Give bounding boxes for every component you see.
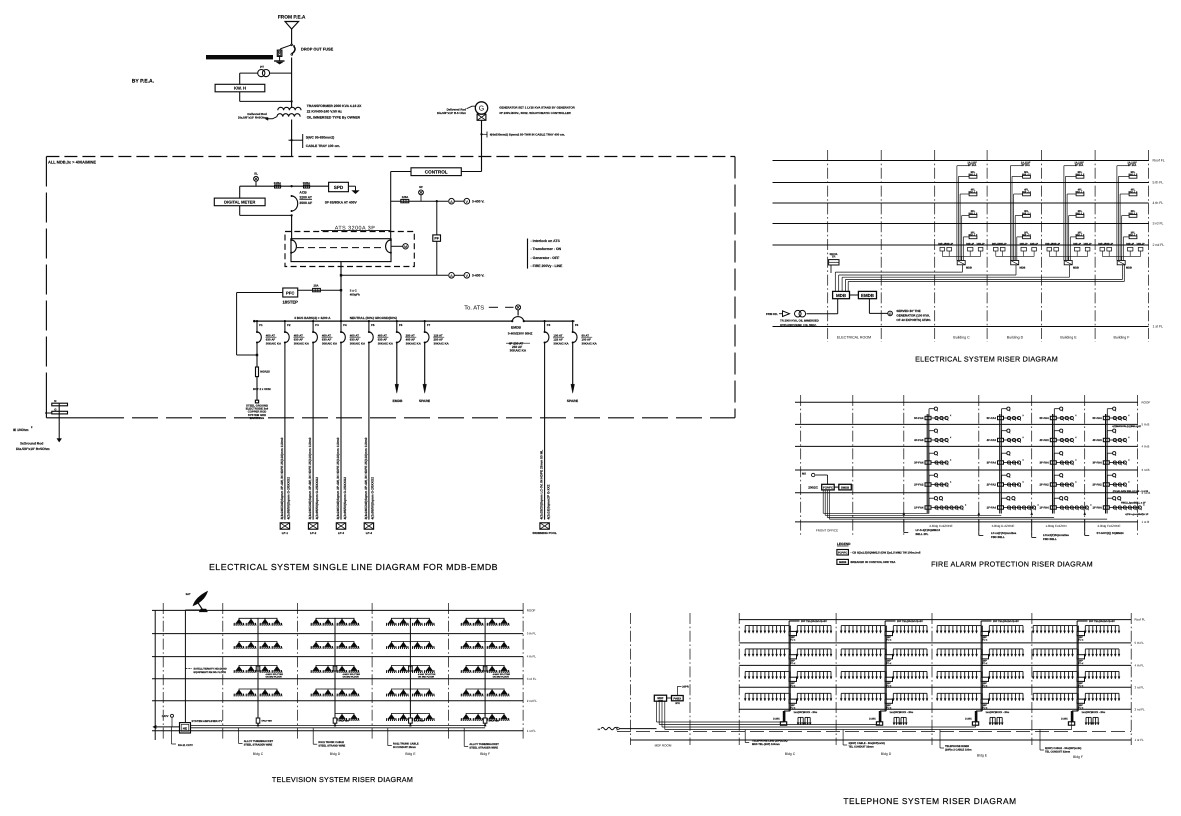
column grid dashed lines fire alarm riser xyxy=(800,395,802,536)
TV outlet pair bay 3 row 5 left xyxy=(386,718,397,720)
svg-text:TC-x: TC-x xyxy=(790,662,796,665)
svg-text:M: M xyxy=(404,245,407,249)
svg-text:FBELL/gxxBELL x 1F: FBELL/gxxBELL x 1F xyxy=(1121,502,1146,505)
terminal cabinet row 2 building 4 xyxy=(1077,655,1085,659)
svg-text:MDB: MDB xyxy=(1126,267,1132,270)
telephone outlets row 3 right building 2 xyxy=(893,670,927,672)
terminal cabinet row 3 building 3 xyxy=(981,677,989,681)
svg-text:3P 20A: 3P 20A xyxy=(1128,164,1137,167)
svg-text:Building C: Building C xyxy=(953,336,970,340)
smoke detector hook row 1 building 2 xyxy=(1001,409,1003,417)
svg-text:FCP/FC: FCP/FC xyxy=(823,486,833,490)
svg-text:(20P)x 2 CABLE 100m: (20P)x 2 CABLE 100m xyxy=(945,749,972,752)
fire alarm floor module 2F-FA2 building 3 xyxy=(1050,483,1056,486)
svg-text:1 st B: 1 st B xyxy=(1142,520,1150,524)
fire alarm floor module 3F-FA4 building 4 xyxy=(1103,461,1109,464)
alarm bells row 4 building 3 xyxy=(1056,484,1072,486)
svg-text:QVFL/22KV/24W, +OL 50HZ.: QVFL/22KV/24W, +OL 50HZ. xyxy=(780,323,817,327)
svg-text:Roof FL: Roof FL xyxy=(1135,618,1146,622)
TV outlet pair bay 4 row 5 right xyxy=(487,718,498,720)
svg-text:F8: F8 xyxy=(547,323,551,327)
svg-text:5F-FA4: 5F-FA4 xyxy=(987,416,997,420)
svg-text:Dia.5/8"x10' R=5Ohm: Dia.5/8"x10' R=5Ohm xyxy=(238,115,267,119)
legend SMDB box xyxy=(837,559,849,564)
svg-text:ALL MDB,3c > 400A/MINE: ALL MDB,3c > 400A/MINE xyxy=(48,160,96,165)
svg-text:3-400/230V 50HZ: 3-400/230V 50HZ xyxy=(508,332,533,336)
svg-text:4(2x95/50)Sqmm G-2/0XXG2: 4(2x95/50)Sqmm G-2/0XXG2 xyxy=(315,477,319,520)
telephone riser building 3 xyxy=(980,623,982,712)
svg-text:TC-x: TC-x xyxy=(886,684,892,687)
legend interlock notes xyxy=(527,239,529,269)
power factor meter PF box xyxy=(433,235,441,241)
telephone riser bottom heavy section building 4 xyxy=(1071,711,1074,722)
fire alarm floor module 2F-FA2 building 2 xyxy=(998,483,1004,486)
telephone conduit dashed line xyxy=(617,731,1131,733)
svg-text:3P 63/80KA AT 400V: 3P 63/80KA AT 400V xyxy=(325,201,358,205)
svg-text:2-20C: 2-20C xyxy=(965,718,972,721)
svg-text:FRM KK.: FRM KK. xyxy=(766,312,778,316)
svg-text:kWh,1P: kWh,1P xyxy=(1020,242,1028,245)
PABX box xyxy=(672,696,684,701)
EMDB incoming tie breaker arc on bus xyxy=(512,317,524,322)
wire MDB to EMDB tie xyxy=(850,294,859,296)
telephone outlets row 4 left building 1 xyxy=(745,692,784,694)
svg-text:1F-FA4: 1F-FA4 xyxy=(1092,506,1102,510)
svg-text:kWh,1P: kWh,1P xyxy=(1137,242,1145,245)
svg-text:BREAKER 30 CONTROL 60W TBA: BREAKER 30 CONTROL 60W TBA xyxy=(851,560,896,564)
svg-text:LEGEND: LEGEND xyxy=(837,542,851,546)
svg-text:Building E: Building E xyxy=(1060,336,1077,340)
svg-text:4F-FA3: 4F-FA3 xyxy=(987,438,997,442)
svg-text:3F-FA4: 3F-FA4 xyxy=(987,461,997,465)
svg-text:ELECTRICAL ROOM: ELECTRICAL ROOM xyxy=(837,336,871,340)
smoke detector hook row 5 building 4 xyxy=(1106,498,1108,506)
svg-text:4-WAY SPLITTER: 4-WAY SPLITTER xyxy=(266,673,284,676)
terminal cabinet row 1 building 1 xyxy=(789,631,797,635)
fire alarm riser pair building 4 xyxy=(1105,414,1107,514)
alarm bells row 4 building 2 xyxy=(1004,484,1020,486)
svg-text:OF 4# EXPORTS) ATMO.: OF 4# EXPORTS) ATMO. xyxy=(896,318,931,322)
TV outlet pair bay 4 row 4 right xyxy=(487,694,498,696)
wire earth bar drop xyxy=(58,403,60,438)
svg-text:2 nd FL: 2 nd FL xyxy=(1153,243,1165,247)
wire PT metering loop bottom xyxy=(239,92,241,102)
svg-text:30KAIC KA: 30KAIC KA xyxy=(582,342,598,346)
telephone outlets row 2 right building 2 xyxy=(893,648,927,650)
svg-text:2-20C: 2-20C xyxy=(1061,718,1068,721)
manual station hook at FCP xyxy=(827,475,829,484)
TV outlet pair bay 1 row 2 right xyxy=(260,646,271,648)
feeder breaker F8 xyxy=(544,321,546,332)
floor lines television riser xyxy=(152,609,523,611)
svg-text:3(4x240/240)Sqmm 3P-4W, IN HDP: 3(4x240/240)Sqmm 3P-4W, IN HDPE 25(110)m… xyxy=(364,437,368,519)
fire alarm floor module 3F-FA4 building 1 xyxy=(925,461,931,464)
svg-text:TEL CONDUIT 32mm: TEL CONDUIT 32mm xyxy=(1045,751,1071,754)
svg-text:BY P.E.A.: BY P.E.A. xyxy=(132,79,155,85)
riser bottom junction box building 2 xyxy=(876,722,882,725)
panel board LP-3 (box with X) xyxy=(336,523,345,529)
telephone outlets row 4 right building 3 xyxy=(989,692,1023,694)
ATS motor operator circle xyxy=(391,245,403,247)
TV outlet pair bay 3 row 1 right xyxy=(412,623,423,625)
column grid dashed lines electrical riser xyxy=(827,150,829,342)
fire alarm floor module 4F-FA3 building 3 xyxy=(1050,438,1056,441)
svg-text:3500 AF: 3500 AF xyxy=(299,201,312,205)
svg-text:A: A xyxy=(450,274,453,278)
main distribution frame MDF box xyxy=(654,695,666,701)
telephone outlets row 4 left building 3 xyxy=(937,692,976,694)
annotation leaders below telephone trunk xyxy=(744,730,746,743)
potential transformer PT (double circle) xyxy=(258,70,265,77)
svg-text:4(2x16)Sqmm2P G-XX2: 4(2x16)Sqmm2P G-XX2 xyxy=(546,484,550,519)
fire alarm floor module 4F-FA3 building 2 xyxy=(998,438,1004,441)
TV outlet pair bay 1 row 1 right xyxy=(260,623,271,625)
TV outlet pair bay 2 row 2 left xyxy=(311,646,322,648)
fire alarm floor module 1F-FA4 building 2 xyxy=(998,506,1004,509)
telephone riser bottom heavy section building 2 xyxy=(879,711,882,722)
unit meter row Building F xyxy=(1100,247,1105,251)
svg-text:30KAIC KA: 30KAIC KA xyxy=(266,342,282,346)
TV outlet pair bay 2 row 4 right xyxy=(337,694,348,696)
fire alarm floor module 1F-FA4 building 4 xyxy=(1103,506,1109,509)
svg-text:PF: PF xyxy=(434,237,438,241)
svg-text:4-WAY SPLITTER: 4-WAY SPLITTER xyxy=(418,673,436,676)
svg-text:GENERATOR SET 1 LY25 KVA STAND: GENERATOR SET 1 LY25 KVA STAND BY GENERA… xyxy=(499,105,575,109)
svg-text:FCP/FC: FCP/FC xyxy=(838,552,847,555)
CATV tap symbol xyxy=(171,714,174,717)
wire feeder drop to panel LP-1 xyxy=(284,343,286,520)
generator cable callout xyxy=(486,132,488,138)
telephone riser building 2 xyxy=(884,623,886,712)
panel board SWIMMING POOL xyxy=(540,523,549,529)
svg-text:KW. H: KW. H xyxy=(234,86,246,91)
wire incoming line from triangle to drop-out fuse xyxy=(291,29,293,44)
incoming supply triangle symbol xyxy=(285,22,299,30)
fire alarm floor module 3F-FA4 building 3 xyxy=(1050,461,1056,464)
TV outlet pair bay 3 row 2 left xyxy=(386,646,397,648)
svg-text:G: G xyxy=(889,312,892,316)
svg-text:PT: PT xyxy=(260,65,264,69)
svg-text:2-20C: 2-20C xyxy=(869,718,876,721)
neutral ground resistor NGR xyxy=(256,367,259,377)
svg-text:ACB: ACB xyxy=(299,190,307,194)
fire alarm floor module 2F-FA2 building 1 xyxy=(925,483,931,486)
fire alarm floor module 2F-FA2 building 4 xyxy=(1103,483,1109,486)
fire alarm floor module 4F-FA3 building 4 xyxy=(1103,438,1109,441)
svg-text:F1: F1 xyxy=(259,323,263,327)
svg-text:F3: F3 xyxy=(315,323,319,327)
telephone riser bottom heavy section building 3 xyxy=(975,711,978,722)
TV outlet pair bay 4 row 2 right xyxy=(487,646,498,648)
svg-text:FIRE ALARM PROTECTION RISER DI: FIRE ALARM PROTECTION RISER DIAGRAM xyxy=(931,560,1093,569)
wire resistor to earth electrode xyxy=(256,377,258,401)
CONTROL box xyxy=(411,168,461,176)
terminal cabinet row 1 building 2 xyxy=(885,631,893,635)
svg-text:SPARE: SPARE xyxy=(419,399,431,403)
TV outlet pair bay 4 row 3 right xyxy=(487,670,498,672)
drop-out fuse blade xyxy=(292,45,295,53)
generator G circle xyxy=(475,102,487,114)
air circuit breaker ACB 3200AT xyxy=(292,196,298,211)
svg-text:IE 10Ohm: IE 10Ohm xyxy=(13,428,29,432)
svg-text:ON 3RD FLOOR: ON 3RD FLOOR xyxy=(266,676,283,679)
TV outlet pair bay 3 row 3 left xyxy=(386,670,397,672)
svg-text:2(20P) CABLE - 50x(20P)xxSQ: 2(20P) CABLE - 50x(20P)xxSQ xyxy=(849,742,885,745)
svg-text:3200 AT: 3200 AT xyxy=(299,195,312,199)
telephone outlets row 1 left building 1 xyxy=(745,625,784,627)
telephone top feeder hook building 4 xyxy=(1076,621,1078,623)
terminal cabinet row 1 building 4 xyxy=(1077,631,1085,635)
svg-text:- Interlock on ATS: - Interlock on ATS xyxy=(531,239,561,243)
svg-text:kWh,1P: kWh,1P xyxy=(1105,242,1113,245)
svg-text:MDF: MDF xyxy=(657,696,663,700)
svg-text:TELEPHONE LINE (20P)xxSQ: TELEPHONE LINE (20P)xxSQ xyxy=(752,740,788,743)
svg-text:TC-x: TC-x xyxy=(1078,662,1084,665)
telephone outlets row 3 right building 3 xyxy=(989,670,1023,672)
fire alarm riser pair building 3 xyxy=(1052,414,1054,514)
svg-text:SPLITTER: SPLITTER xyxy=(414,720,425,723)
svg-text:Roof FL: Roof FL xyxy=(1153,159,1165,163)
meter collection loop Building E xyxy=(1048,251,1050,256)
svg-text:3P 230V./400V., 50HZ. W/AUTOMA: 3P 230V./400V., 50HZ. W/AUTOMATIC CONTRO… xyxy=(499,111,571,115)
svg-text:F6: F6 xyxy=(399,323,403,327)
svg-text:SPD: SPD xyxy=(334,185,344,190)
svg-text:A: A xyxy=(450,200,453,204)
alarm bells row 5 building 4 xyxy=(1109,507,1140,509)
svg-text:3PR: 3PR xyxy=(675,702,680,705)
svg-text:3-400 V.: 3-400 V. xyxy=(472,274,485,278)
svg-text:30KAIC KA: 30KAIC KA xyxy=(510,349,527,353)
svg-text:kWh,1P: kWh,1P xyxy=(945,242,953,245)
svg-text:2F-FA2: 2F-FA2 xyxy=(987,483,997,487)
wire lower metering line xyxy=(341,274,448,276)
svg-text:30KVA: 30KVA xyxy=(829,253,837,256)
svg-text:Bldg D: Bldg D xyxy=(330,752,341,756)
svg-text:3(4x240/240)Sqmm 3P-4W, IN HDP: 3(4x240/240)Sqmm 3P-4W, IN HDPE 25(110)m… xyxy=(308,437,312,519)
svg-text:125A: 125A xyxy=(402,195,409,199)
svg-text:F5: F5 xyxy=(371,323,375,327)
alarm bells row 1 building 4 xyxy=(1109,417,1125,419)
building riser bundle Building D xyxy=(1009,166,1011,261)
svg-text:SERVED BY THE: SERVED BY THE xyxy=(896,309,920,313)
riser collector box Building E xyxy=(1064,261,1072,265)
wire main line from fuse to PT tap xyxy=(291,58,293,102)
feeder F9 arrow SPARE xyxy=(572,343,574,385)
wire MDB main bus 3200A xyxy=(254,320,512,322)
smoke detector hook row 4 building 3 xyxy=(1053,475,1055,483)
svg-text:3F-FA4: 3F-FA4 xyxy=(1039,461,1049,465)
surge protective device SPD box xyxy=(329,182,349,191)
svg-text:Building D: Building D xyxy=(1007,336,1024,340)
smoke detector hook row 2 building 4 xyxy=(1106,431,1108,439)
fire alarm floor module 5F-FA4 building 4 xyxy=(1103,416,1109,419)
ammeter A upper xyxy=(449,198,455,204)
svg-text:FROM P.E.A: FROM P.E.A xyxy=(278,15,306,21)
svg-text:Bldg C: Bldg C xyxy=(253,752,264,756)
terminal cabinet row 4 building 3 xyxy=(981,699,989,703)
svg-text:4 th FL: 4 th FL xyxy=(527,655,537,659)
telephone outlets row 2 left building 3 xyxy=(937,648,976,650)
telephone outlets row 1 right building 3 xyxy=(989,625,1023,627)
wire PT metering loop top xyxy=(240,72,258,74)
svg-text:2 nd FL: 2 nd FL xyxy=(527,699,538,703)
unit meter row Building C xyxy=(940,247,945,251)
TV splitter box bay 2 floor 3 xyxy=(333,666,337,671)
svg-text:BCT 2 x OHM: BCT 2 x OHM xyxy=(253,387,271,391)
leader label below headend xyxy=(171,727,173,744)
wire incoming service to MDB xyxy=(837,299,839,314)
riser bottom junction box building 1 xyxy=(780,722,786,725)
generator source circle EMDB xyxy=(888,311,893,316)
svg-text:20PR: 20PR xyxy=(682,686,689,689)
wire satellite downlead xyxy=(185,609,204,611)
svg-text:4F-FA3: 4F-FA3 xyxy=(914,438,924,442)
svg-text:3P 20A: 3P 20A xyxy=(1021,164,1030,167)
wire MDF to PABX xyxy=(667,697,672,699)
TV outlet pair bay 2 row 1 left xyxy=(311,623,322,625)
wire emergency metering line xyxy=(391,200,448,202)
voltmeter V upper xyxy=(464,198,470,204)
telephone outlets row 1 left building 3 xyxy=(937,625,976,627)
telephone outlets row 1 right building 1 xyxy=(797,625,831,627)
riser collector box Building F xyxy=(1117,261,1125,265)
power factor correction PFC box xyxy=(283,288,298,297)
alarm bells row 1 building 2 xyxy=(1004,417,1020,419)
svg-text:Dia.5/8"x10' R=5Ohm: Dia.5/8"x10' R=5Ohm xyxy=(16,447,50,451)
svg-text:DIGITAL METER: DIGITAL METER xyxy=(224,200,255,205)
PABX 20PR hook xyxy=(676,686,678,695)
svg-text:MS: MS xyxy=(802,472,806,475)
roof transformer symbol on MDB riser xyxy=(830,265,832,273)
svg-text:TC-x: TC-x xyxy=(886,639,892,642)
svg-text:FBD BELL: FBD BELL xyxy=(1043,537,1057,541)
fuse cutout body xyxy=(280,45,291,49)
terminal cabinet row 4 building 1 xyxy=(789,699,797,703)
svg-text:2F-FA2: 2F-FA2 xyxy=(1092,483,1102,487)
svg-text:4 th FL: 4 th FL xyxy=(1135,664,1145,668)
transformer neutral ground lead xyxy=(268,117,277,119)
svg-text:EMDB: EMDB xyxy=(393,399,403,403)
svg-text:2(20P) CABLE - 50x(20P)xxSQ: 2(20P) CABLE - 50x(20P)xxSQ xyxy=(1045,747,1081,750)
smoke detector hook row 5 building 1 xyxy=(928,498,930,506)
svg-text:STEEL STRADER WIRE: STEEL STRADER WIRE xyxy=(469,747,498,750)
fire alarm riser pair building 2 xyxy=(999,414,1001,514)
TV outlet pair bay 3 row 2 right xyxy=(412,646,423,648)
svg-text:kWh,1P: kWh,1P xyxy=(977,242,985,245)
fire control panel FCP/FC box xyxy=(822,484,835,490)
smoke detector hook row 2 building 3 xyxy=(1053,431,1055,439)
fire alarm floor module 5F-FA4 building 2 xyxy=(998,416,1004,419)
telephone top feeder hook building 3 xyxy=(980,621,982,623)
svg-text:TC-x: TC-x xyxy=(982,684,988,687)
feeder breaker F4 xyxy=(340,321,342,332)
TV splitter box bay 4 floor 3 xyxy=(483,666,487,671)
ATS dashed linkage line xyxy=(297,247,385,249)
svg-text:ELECTRICAL SYSTEM RISER DIAGRA: ELECTRICAL SYSTEM RISER DIAGRAM xyxy=(915,355,1058,364)
first floor line electrical riser xyxy=(773,326,1149,328)
svg-text:kWh,1P: kWh,1P xyxy=(1052,242,1060,245)
ground lead below fuse cutout xyxy=(279,56,281,60)
svg-text:OIL IMMERSED TYPE By OWNER: OIL IMMERSED TYPE By OWNER xyxy=(307,116,361,120)
telephone outlets row 2 left building 4 xyxy=(1033,648,1072,650)
wire TV riser to trunk bay 1 xyxy=(257,723,259,725)
kilowatt-hour meter box KW H xyxy=(215,84,265,92)
first floor line television riser xyxy=(152,730,523,732)
svg-text:TC-x: TC-x xyxy=(886,662,892,665)
svg-text:SPLITTER: SPLITTER xyxy=(338,720,349,723)
svg-text:HE: HE xyxy=(183,727,187,731)
svg-text:20P TEL(20x2x0.5)+2C: 20P TEL(20x2x0.5)+2C xyxy=(801,620,827,623)
svg-text:MDF ROOM: MDF ROOM xyxy=(655,743,672,747)
svg-text:DROP OUT FUSE: DROP OUT FUSE xyxy=(301,46,334,51)
first floor line telephone riser xyxy=(631,739,1132,741)
telephone outlets row 2 right building 4 xyxy=(1085,648,1119,650)
alarm bells row 4 building 4 xyxy=(1109,484,1125,486)
svg-text:4(2x95/50)Sqmm G-2/0XXG2: 4(2x95/50)Sqmm G-2/0XXG2 xyxy=(287,477,291,520)
telephone outlets row 1 right building 4 xyxy=(1085,625,1119,627)
TV outlet pair bay 1 row 2 left xyxy=(234,646,245,648)
feeder breaker F3 xyxy=(312,321,314,332)
fire alarm floor module 1F-FA4 building 3 xyxy=(1050,506,1056,509)
telephone outlets row 3 left building 3 xyxy=(937,670,976,672)
svg-text:4(4x630mm2) Spmm2 50-THW IN CA: 4(4x630mm2) Spmm2 50-THW IN CABLE TRAY 4… xyxy=(490,132,566,136)
svg-text:F4: F4 xyxy=(343,323,347,327)
smoke detector hook row 4 building 2 xyxy=(1001,475,1003,483)
svg-text:1 st FL: 1 st FL xyxy=(527,729,537,733)
telephone outlets row 4 left building 2 xyxy=(841,692,880,694)
smoke detector hook row 3 building 1 xyxy=(928,453,930,461)
MDB cubicle dashed enclosure xyxy=(46,156,735,158)
smoke detector hook row 1 building 1 xyxy=(928,409,930,417)
SPD ground lead xyxy=(348,185,355,187)
svg-text:kWh,1P: kWh,1P xyxy=(1073,242,1081,245)
TV outlet pair bay 1 row 1 left xyxy=(234,623,245,625)
wire feeder drop to panel LP-3 xyxy=(340,343,342,520)
feeder breaker F7 xyxy=(424,321,426,332)
feeder F7 arrow SPARE xyxy=(424,343,426,385)
svg-text:F7: F7 xyxy=(427,323,431,327)
svg-text:3 BUS BARS(4) > 3200 A: 3 BUS BARS(4) > 3200 A xyxy=(294,316,331,320)
terminal cabinet row 2 building 2 xyxy=(885,655,893,659)
smoke detector hook row 4 building 1 xyxy=(928,475,930,483)
svg-text:30KAIC KA: 30KAIC KA xyxy=(378,342,394,346)
svg-text:- FIRE 200Vy - LINE: - FIRE 200Vy - LINE xyxy=(531,264,564,268)
svg-text:BELL 2FL: BELL 2FL xyxy=(916,532,929,536)
wire TV riser to trunk bay 4 xyxy=(484,723,486,725)
svg-text:2-20C: 2-20C xyxy=(773,718,780,721)
floor lines electrical riser xyxy=(773,160,1149,162)
terminal cabinet row 3 building 1 xyxy=(789,677,797,681)
telephone outlets row 1 left building 4 xyxy=(1033,625,1072,627)
TV riser line bay 1 xyxy=(257,621,259,718)
svg-text:3P 20A: 3P 20A xyxy=(968,164,977,167)
svg-text:+(Fire-goesBell)x 1F: +(Fire-goesBell)x 1F xyxy=(1125,513,1149,516)
svg-text:- Transformer - ON: - Transformer - ON xyxy=(531,247,562,251)
satellite dish base xyxy=(199,609,207,612)
transformer TR 2000 kVA secondary winding xyxy=(277,114,300,117)
svg-text:20P TEL(20x2x0.5)+2C: 20P TEL(20x2x0.5)+2C xyxy=(897,620,923,623)
wire feeder F8 drop to swimming pool panel xyxy=(544,343,546,520)
svg-text:4 th FL: 4 th FL xyxy=(1153,201,1164,205)
ammeter A lower xyxy=(449,273,455,279)
panel board LP-1 (box with X) xyxy=(280,523,289,529)
feeder breaker F1 xyxy=(256,321,258,332)
svg-text:4(2x95/50)Sqmm G-2/0XXG2: 4(2x95/50)Sqmm G-2/0XXG2 xyxy=(343,477,347,520)
alarm bells row 3 building 1 xyxy=(931,462,947,464)
svg-text:5 th FL: 5 th FL xyxy=(527,632,537,636)
alarm bells row 3 building 4 xyxy=(1109,462,1125,464)
svg-text:EMDB: EMDB xyxy=(861,293,874,298)
